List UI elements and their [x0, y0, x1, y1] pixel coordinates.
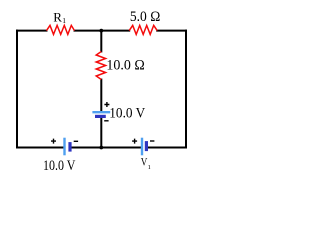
- svg-text:10.0 Ω: 10.0 Ω: [106, 58, 144, 74]
- svg-text:1: 1: [62, 16, 66, 25]
- svg-text:1: 1: [148, 164, 151, 171]
- svg-text:10.0 V: 10.0 V: [43, 158, 76, 174]
- svg-text:10.0 V: 10.0 V: [109, 106, 145, 122]
- svg-text:R: R: [53, 10, 62, 25]
- svg-text:5.0 Ω: 5.0 Ω: [130, 9, 160, 25]
